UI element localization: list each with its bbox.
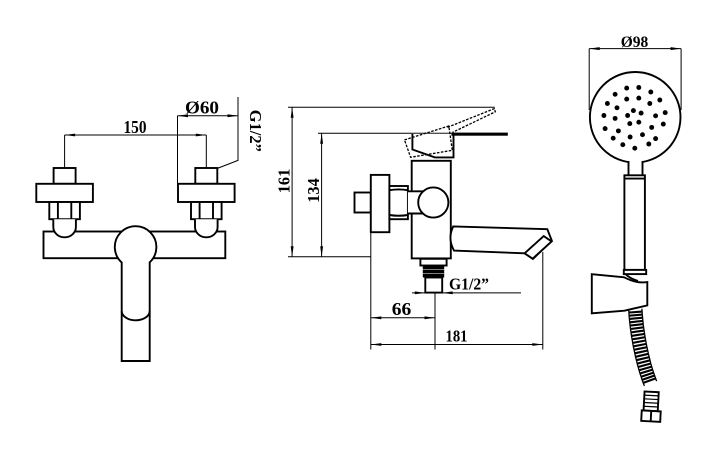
handle blade (dashed, raised position) xyxy=(448,109,496,133)
handle cap bottom curve xyxy=(626,274,638,281)
dimension 181 line xyxy=(371,344,543,346)
G1/2 leader line (front view) xyxy=(216,97,238,169)
handle blade (solid, horizontal) xyxy=(451,133,507,136)
svg-text:181: 181 xyxy=(446,327,468,346)
hose corrugation rungs xyxy=(629,312,656,383)
shower head nozzles xyxy=(601,85,667,151)
top extension line (lever tip level) xyxy=(288,106,495,108)
wall stub xyxy=(355,193,371,213)
handle hub circle and lever (keyhole) xyxy=(115,226,157,361)
svg-text:134: 134 xyxy=(304,178,323,203)
dimension 134 line xyxy=(321,133,323,257)
dimension 150 extension line right xyxy=(205,135,207,168)
extension line (body top level) xyxy=(318,132,451,134)
dimension D98 extension right xyxy=(680,49,682,110)
left inlet top nut xyxy=(54,168,76,184)
right inlet top nut xyxy=(195,168,217,184)
svg-text:Ø98: Ø98 xyxy=(621,34,649,51)
left inlet flange xyxy=(36,184,93,202)
dimension 150 line xyxy=(65,134,207,136)
connector between nut and diverter xyxy=(408,191,425,213)
hose end thread connector xyxy=(641,391,662,422)
dimension 181 extension right xyxy=(542,252,544,350)
dimension 66 line xyxy=(371,317,435,319)
shower neck xyxy=(629,158,643,175)
hex nut (side view) xyxy=(389,186,408,219)
svg-text:Ø60: Ø60 xyxy=(185,98,219,118)
shower head face xyxy=(590,72,681,163)
shower hose xyxy=(629,309,657,386)
diverter knob circle xyxy=(418,187,448,217)
outlet collar xyxy=(420,259,446,266)
right inlet dome connector xyxy=(195,219,218,237)
left inlet hex nut xyxy=(49,202,80,219)
dimension 161 line xyxy=(291,107,293,256)
right inlet flange xyxy=(178,184,235,202)
G1/2 dimension line (side view) xyxy=(412,292,521,294)
spout tip aerator xyxy=(525,236,552,259)
hose end hex nut xyxy=(641,410,661,421)
dimension 66 extension right xyxy=(434,294,436,350)
svg-text:161: 161 xyxy=(274,169,293,194)
left inlet dome connector xyxy=(53,219,76,237)
svg-text:66: 66 xyxy=(392,299,412,319)
right inlet hex nut xyxy=(191,202,222,219)
svg-text:G1/2”: G1/2” xyxy=(449,275,489,294)
dimension D60 line xyxy=(178,115,239,117)
svg-text:150: 150 xyxy=(124,117,147,137)
handle end cap xyxy=(624,270,646,274)
lever grip U-curve xyxy=(122,311,150,320)
shower handle xyxy=(624,175,645,270)
outlet pipe xyxy=(425,278,442,293)
dimension 66 extension left xyxy=(370,232,372,349)
spout xyxy=(450,226,551,259)
outlet thread (G1/2) xyxy=(423,266,444,278)
valve body xyxy=(412,161,451,259)
handle cap (dashed, raised position) xyxy=(405,126,453,157)
dimension D60 extension line left xyxy=(177,116,179,183)
dimension 150 extension line left xyxy=(64,135,66,168)
wall bracket xyxy=(592,274,648,313)
mixer body bar xyxy=(44,232,226,259)
handle cap (solid) xyxy=(412,134,453,158)
dimension D98 line xyxy=(589,48,681,50)
wall flange (side view) xyxy=(371,175,390,232)
dimension D98 extension left xyxy=(588,49,590,110)
bottom extension line (body bottom level) xyxy=(288,256,371,258)
svg-text:G1/2”: G1/2” xyxy=(246,110,265,152)
